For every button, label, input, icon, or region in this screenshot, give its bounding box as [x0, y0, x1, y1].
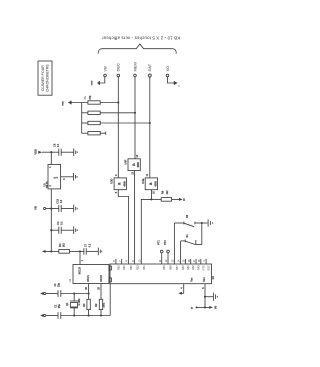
capacitor C7 [84, 243, 98, 254]
svg-text:S: S [191, 306, 193, 310]
node MEM terminal [132, 62, 137, 77]
wire MCLR stub to U1 pin1 [80, 251, 84, 264]
node VB terminal [102, 66, 107, 77]
svg-text:RA0: RA0 [182, 265, 185, 270]
svg-text:R4: R4 [58, 243, 62, 247]
svg-text:CLAVIER POUR: CLAVIER POUR [41, 65, 45, 91]
svg-text:RB6: RB6 [170, 265, 173, 270]
svg-text:CHRONOMETRE: CHRONOMETRE [46, 64, 50, 92]
ground (IC) [213, 293, 217, 301]
svg-text:RTC: RTC [202, 265, 205, 270]
svg-text:RB7: RB7 [176, 265, 179, 270]
resistor R1c [82, 121, 151, 124]
resistor R1b [82, 111, 136, 114]
node DEC terminal [116, 63, 121, 77]
wire VDD node [50, 151, 59, 153]
ground (C4) [74, 226, 78, 234]
switch S5 [174, 214, 207, 264]
wire VDD to U2 pin1 [50, 152, 52, 164]
U1/IC tab top [109, 266, 112, 270]
capacitor C13 [56, 198, 74, 212]
node PT2 [164, 240, 169, 264]
title block CLAVIER POUR CHRONOMETRE [38, 61, 52, 95]
svg-text:VB: VB [34, 206, 38, 210]
svg-text:U3F: U3F [124, 159, 128, 164]
svg-text:4069: 4069 [154, 181, 157, 187]
svg-text:RB5: RB5 [163, 265, 166, 270]
switch S1 [181, 223, 202, 264]
svg-text:VDD: VDD [63, 101, 65, 106]
svg-text:R6: R6 [161, 190, 165, 194]
inverter U3D [110, 174, 127, 193]
net flag OSC2 row left [40, 314, 58, 317]
svg-text:RB0: RB0 [117, 265, 120, 270]
net flag S battery row [191, 305, 218, 310]
svg-text:U1: U1 [68, 278, 72, 282]
capacitor C2 [55, 282, 90, 296]
wire U3D output to IC [118, 190, 128, 264]
svg-text:R1: R1 [83, 95, 87, 99]
resistor network R1 common rail [63, 95, 92, 133]
wire XO to flag [168, 77, 181, 88]
svg-text:OSC2: OSC2 [100, 274, 103, 281]
svg-text:4.19M: 4.19M [78, 299, 81, 306]
svg-text:DAT: DAT [147, 63, 152, 71]
wire U3F output to IC [134, 171, 136, 264]
IC top pin stubs unwired [116, 259, 206, 264]
capacitor C6 [52, 143, 73, 156]
resistor R6 [152, 190, 186, 201]
svg-text:DEC: DEC [116, 63, 121, 72]
wire U2 pin2 down [50, 189, 52, 209]
svg-text:U2: U2 [43, 183, 47, 187]
svg-text:PT2: PT2 [164, 240, 167, 245]
wire U3E output jog to IC [141, 190, 152, 264]
svg-text:C4: C4 [56, 221, 60, 225]
svg-text:C13: C13 [56, 198, 60, 203]
svg-text:RB1: RB1 [123, 265, 126, 270]
capacitor on U2 pin3 [61, 176, 74, 178]
brace [98, 44, 176, 54]
wire VB node [50, 207, 59, 209]
svg-text:MCLR: MCLR [78, 267, 81, 274]
inverter U3F [124, 154, 141, 175]
resistor R1d [82, 132, 106, 135]
svg-text:OSC: OSC [208, 265, 211, 271]
svg-text:Vss: Vss [192, 277, 194, 282]
svg-text:4069: 4069 [137, 161, 140, 167]
regulator U2 78L05 [43, 164, 67, 189]
svg-text:VDD: VDD [92, 80, 94, 85]
wire DAT vertical (bus) [149, 77, 151, 178]
svg-text:RA2: RA2 [192, 265, 195, 270]
wire VB to VDD flag [92, 77, 105, 86]
power flag VDD (regulator input top) [34, 149, 52, 155]
svg-text:RB2: RB2 [130, 265, 133, 270]
capacitor C1 [55, 304, 61, 319]
svg-text:MEM: MEM [132, 62, 137, 71]
svg-text:VB: VB [102, 66, 107, 72]
ground (S5) [208, 219, 212, 226]
power flag VB (battery input) [34, 206, 52, 210]
wire MEM vertical [134, 77, 136, 159]
net flag OSC1 row left [40, 292, 58, 295]
svg-text:15p: 15p [59, 304, 61, 309]
svg-text:Q1: Q1 [65, 302, 69, 306]
svg-text:OSC1: OSC1 [87, 274, 90, 281]
IC top pin names [117, 265, 210, 271]
svg-text:RB3: RB3 [137, 265, 140, 270]
svg-text:Vdd: Vdd [204, 277, 206, 282]
wire bottom rail to IC [61, 284, 110, 317]
capacitor C4 [50, 221, 73, 234]
svg-text:XO: XO [165, 66, 170, 72]
svg-text:IO: IO [183, 198, 186, 201]
svg-text:47k: 47k [89, 95, 92, 100]
ground (C13) [74, 205, 78, 213]
svg-text:VDD: VDD [34, 149, 38, 155]
U1/IC tab bottom [109, 278, 112, 282]
ground (C6) [74, 148, 78, 156]
node XO terminal [165, 66, 170, 77]
svg-text:U3E: U3E [141, 178, 145, 183]
wire DEC vertical [117, 77, 119, 178]
svg-text:KB 10 - 2 X 5 touches - vers a: KB 10 - 2 X 5 touches - vers afficheur [102, 35, 181, 40]
svg-text:RB4: RB4 [143, 265, 146, 270]
resistor R4 [58, 243, 84, 254]
svg-text:PT1: PT1 [157, 240, 160, 245]
svg-text:C6: C6 [52, 143, 56, 147]
svg-text:15p: 15p [59, 282, 61, 287]
net flag MCLR row [42, 250, 59, 253]
node DAT terminal [147, 63, 152, 77]
inverter U3E [141, 173, 158, 194]
ground (U2 pin3) [74, 173, 78, 181]
IC bottom pin 4 with net flag [178, 284, 183, 295]
crystal Q1 [65, 294, 81, 316]
wire OSC1 stub [86, 284, 88, 294]
svg-text:4069: 4069 [123, 181, 126, 187]
svg-text:U3D: U3D [110, 178, 114, 183]
ground (C7) [98, 248, 102, 256]
resistor R1a [88, 101, 119, 104]
svg-text:RA1: RA1 [187, 265, 190, 270]
resistor R2 [95, 299, 105, 315]
node PT1 [157, 240, 163, 264]
svg-text:VB: VB [215, 305, 218, 309]
IC top pin numbers [113, 259, 206, 262]
svg-text:2k2: 2k2 [63, 243, 65, 248]
svg-text:RA3: RA3 [198, 265, 201, 270]
op-amp U1 MCU section [68, 265, 109, 284]
IC bottom pin 5 rail [202, 284, 213, 308]
IC U4 main keyboard controller [110, 264, 215, 284]
wire OSC2 stub [99, 284, 101, 300]
wire VB rail down [50, 209, 52, 252]
resistor R3 [83, 294, 91, 316]
